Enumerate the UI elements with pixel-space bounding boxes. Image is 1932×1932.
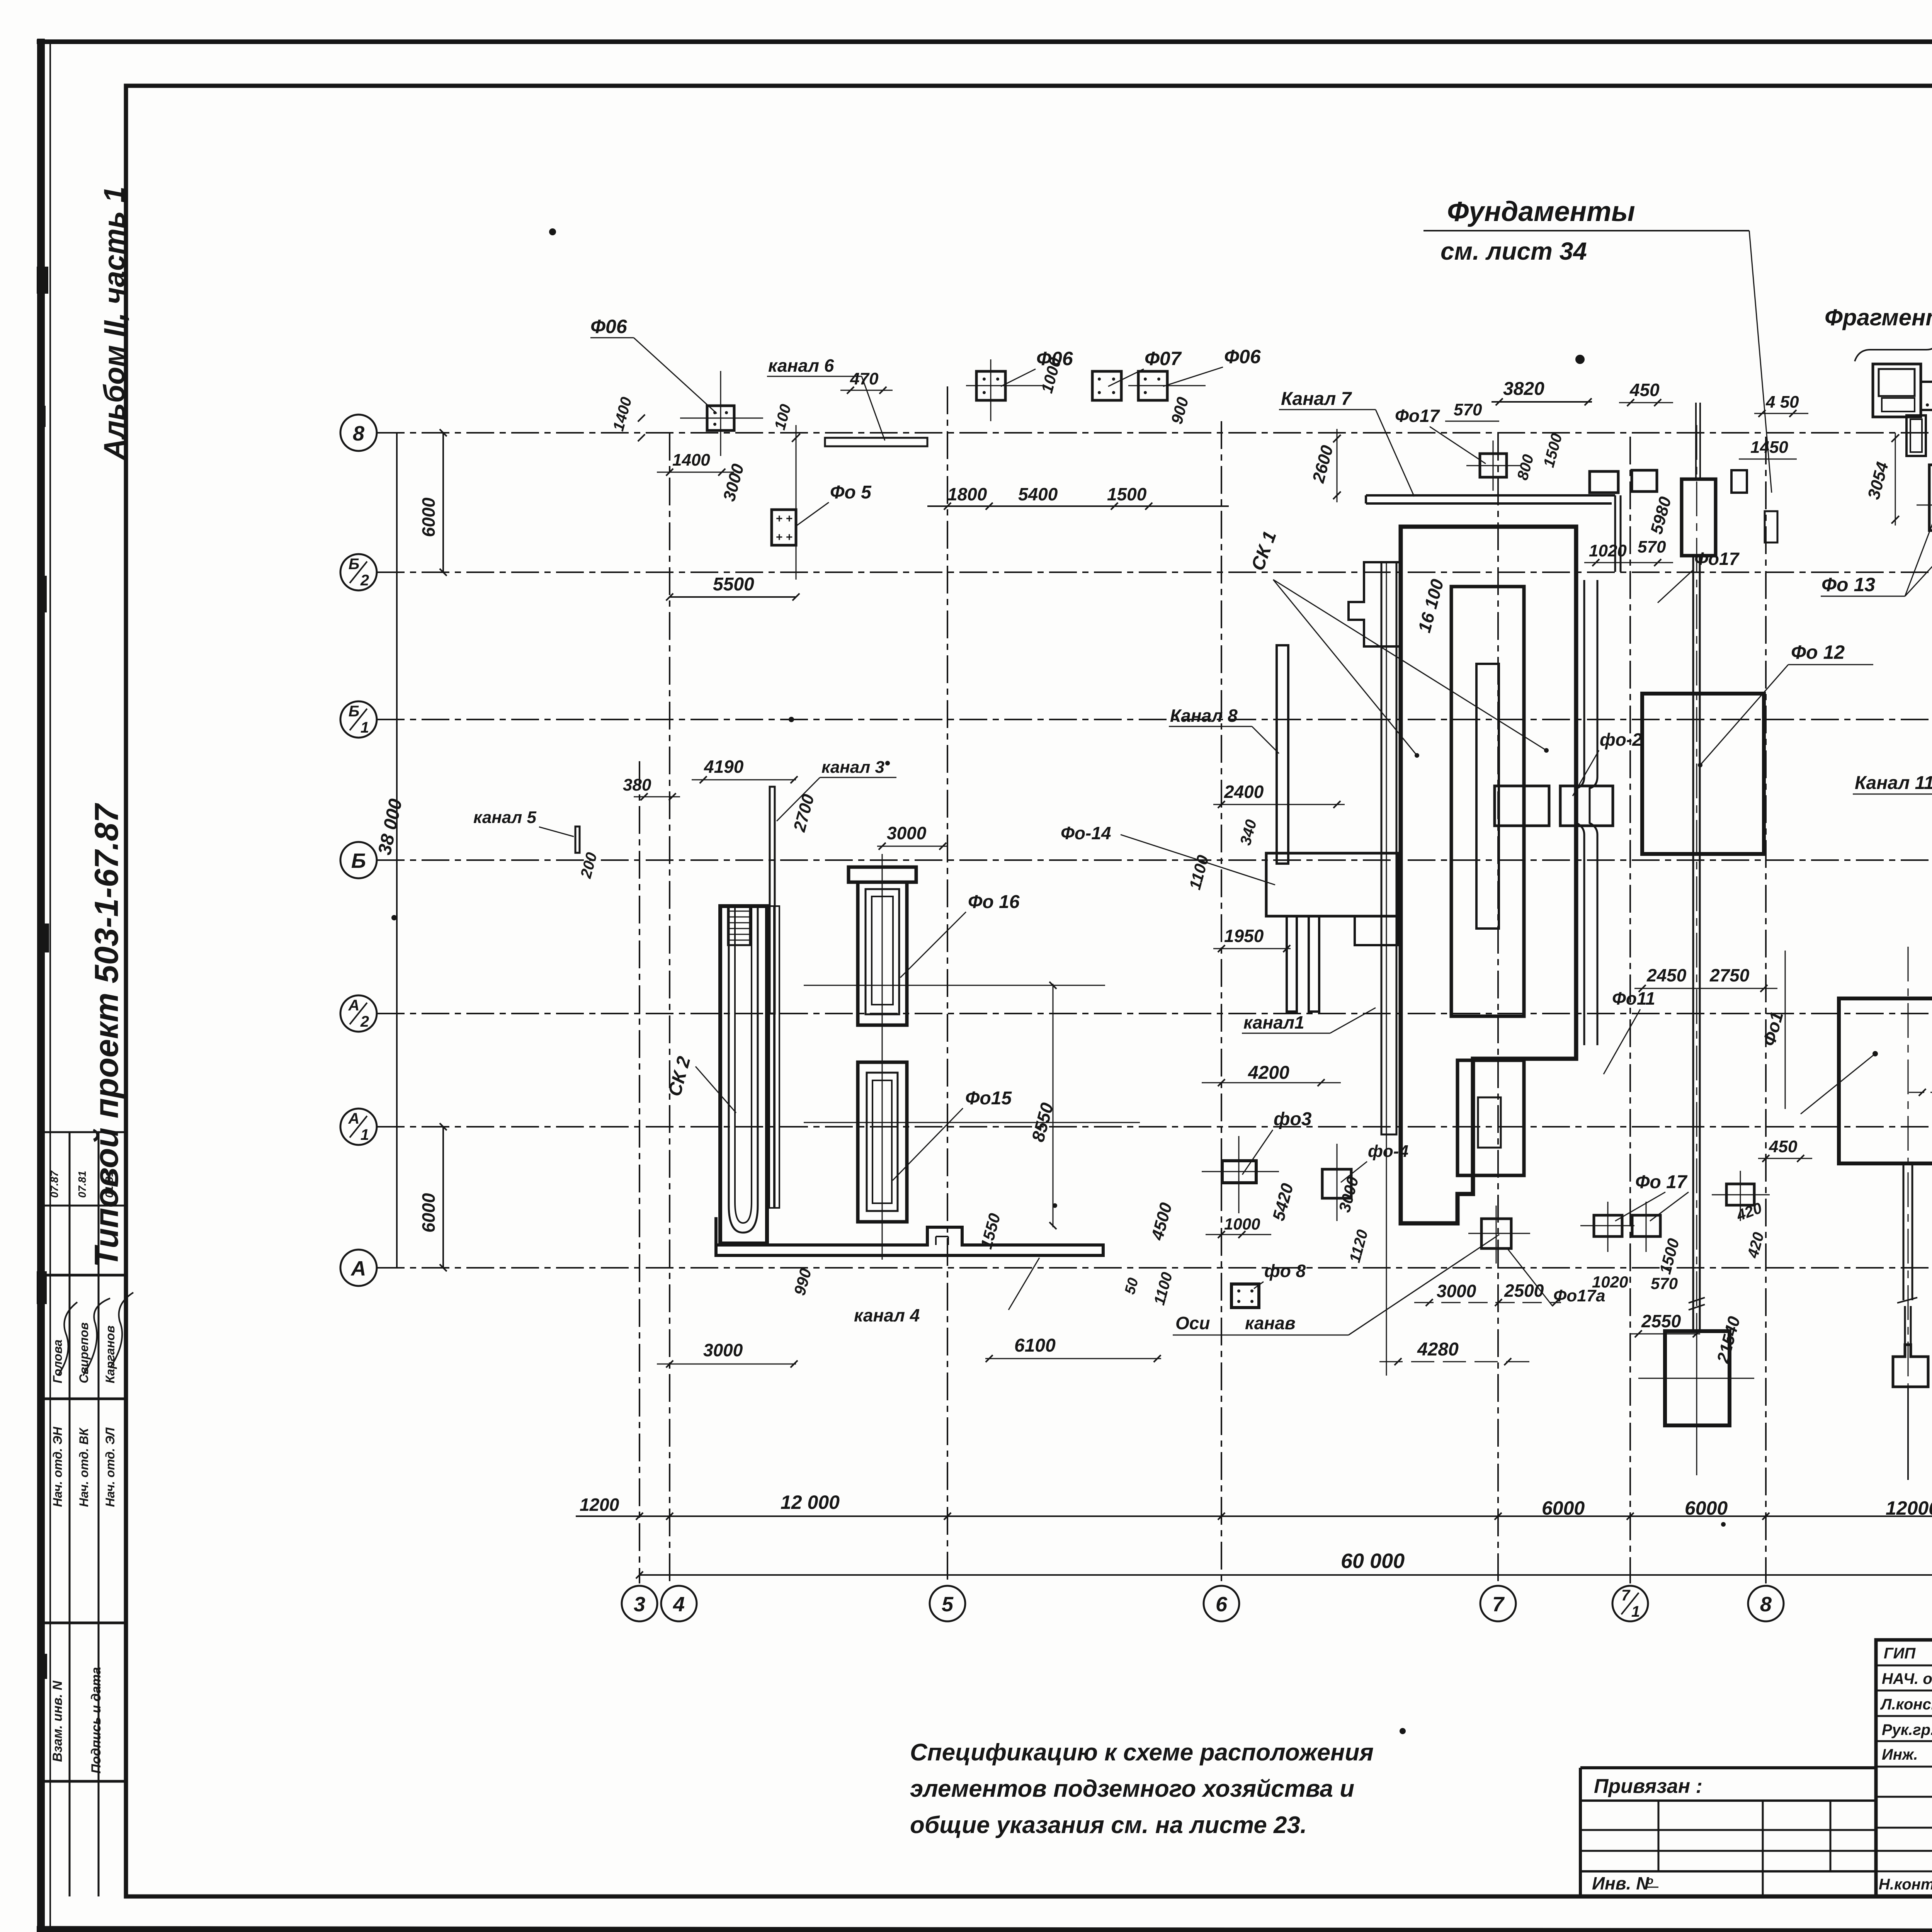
svg-text:1800: 1800 [947, 484, 987, 504]
axis column 3 circle [622, 1586, 657, 1621]
svg-text:канал 3: канал 3 [821, 758, 884, 777]
svg-text:Спецификацию к схеме расп: Спецификацию к схеме расположения [910, 1739, 1374, 1766]
svg-text:12 000: 12 000 [781, 1492, 840, 1513]
svg-text:фо-4: фо-4 [1368, 1142, 1408, 1161]
svg-text:ГИП: ГИП [1884, 1645, 1916, 1662]
foundation Ф06 first square [707, 406, 734, 430]
axis row Б/2 dash-dot line [377, 571, 1932, 573]
svg-text:1020: 1020 [1592, 1273, 1628, 1291]
svg-text:Привязан :: Привязан : [1594, 1775, 1702, 1798]
svg-text:Фо 13: Фо 13 [1821, 574, 1875, 595]
svg-text:о: о [1647, 1874, 1653, 1886]
Фо1 stem double line [1903, 1163, 1905, 1300]
svg-text:Канал 7: Канал 7 [1281, 389, 1352, 409]
svg-text:07.87: 07.87 [48, 1170, 60, 1198]
axis row А/2 circle [340, 995, 377, 1032]
svg-text:Б: Б [351, 849, 366, 872]
dimension tick [666, 1513, 673, 1520]
svg-text:Рук.гр.: Рук.гр. [1882, 1721, 1932, 1738]
axis column 7 circle [1480, 1586, 1516, 1621]
СК1 inner slot island lower [1478, 1097, 1501, 1148]
Фо15 centerline horizontal [804, 1122, 1140, 1123]
scan speck [1721, 1522, 1726, 1527]
Г shaped piece [1765, 511, 1777, 543]
svg-text:7: 7 [1621, 1587, 1631, 1604]
svg-text:1: 1 [1631, 1603, 1640, 1620]
svg-text:6000: 6000 [418, 497, 439, 537]
dimension tick [636, 1513, 643, 1520]
building СК1 slab outline [1401, 527, 1576, 1223]
svg-text:Фо-14: Фо-14 [1061, 823, 1111, 843]
axis row 8 circle [340, 415, 377, 451]
svg-text:01.81: 01.81 [103, 1171, 115, 1198]
svg-text:1450: 1450 [1750, 438, 1788, 457]
svg-text:8: 8 [1760, 1593, 1772, 1616]
axis row 8 dash-dot line [377, 432, 1932, 434]
svg-text:Голова: Голова [51, 1340, 65, 1383]
foundation Фо17а rect [1481, 1219, 1511, 1248]
axis column 8 dash-dot line [1765, 437, 1767, 1583]
Фо1 leader [1801, 1054, 1875, 1114]
Фо1 centerline [1908, 947, 1909, 1453]
svg-text:А: А [348, 997, 360, 1014]
foundation Ф05 [772, 510, 796, 545]
svg-text:380: 380 [623, 776, 651, 794]
svg-text:Оси: Оси [1175, 1313, 1210, 1333]
sheet outer border left rough band [37, 39, 45, 1932]
svg-text:1: 1 [361, 1126, 369, 1143]
svg-text:2: 2 [360, 572, 369, 589]
svg-text:Фо 16: Фо 16 [968, 892, 1020, 912]
svg-text:Нач. отд. ЭЛ: Нач. отд. ЭЛ [103, 1427, 117, 1507]
svg-text:Карганов: Карганов [103, 1325, 117, 1383]
svg-text:Фо 17: Фо 17 [1635, 1172, 1688, 1192]
foundation Фо15 slot [872, 1080, 892, 1203]
svg-text:Нач. отд. ЭН: Нач. отд. ЭН [51, 1427, 65, 1507]
foundation Фо1 big rectangle [1839, 998, 1932, 1163]
svg-text:4280: 4280 [1417, 1339, 1459, 1360]
foot centerlines [1696, 1314, 1697, 1445]
axis row А/1 circle [340, 1109, 377, 1145]
канал 4 double line channel [716, 1217, 1103, 1255]
left vertical dimension line [442, 433, 444, 572]
svg-text:5500: 5500 [713, 574, 754, 595]
axis row А/1 dash-dot line [377, 1126, 1932, 1128]
scan speck [789, 717, 794, 722]
foundation Фо12 big rectangle [1642, 694, 1764, 854]
СК1 leader lines [1273, 580, 1417, 755]
pair tall rect left 2700 [1929, 465, 1932, 531]
foundation Фо17 pair right [1632, 1215, 1660, 1236]
svg-text:см. лист 34: см. лист 34 [1440, 237, 1587, 265]
scan speck [885, 761, 890, 765]
Фо1 stem break [1897, 1298, 1917, 1303]
fragment big square inner [1879, 369, 1915, 396]
foundation Фо-2 right rect [1560, 786, 1613, 826]
dimension tick [1762, 1513, 1769, 1520]
СК1 inner slot island upper [1476, 664, 1499, 929]
foundation Фо16 flange [849, 867, 916, 882]
axis column 5 dash-dot line [947, 386, 948, 1583]
svg-text:6: 6 [1216, 1593, 1228, 1616]
svg-text:470: 470 [850, 369, 879, 388]
svg-text:570: 570 [1638, 537, 1666, 556]
axis row Б/2 circle [340, 554, 377, 590]
fragment big square outer [1873, 364, 1921, 417]
svg-text:2550: 2550 [1641, 1311, 1681, 1331]
svg-text:+ +: + + [776, 531, 793, 544]
svg-text:Инж.: Инж. [1882, 1746, 1918, 1763]
leader Фундаменты to фо17 [1749, 231, 1772, 493]
привязан sub grid [1580, 1799, 1876, 1802]
Фо-14 right block [1355, 916, 1398, 945]
svg-text:4190: 4190 [704, 757, 744, 777]
foundation Фо-2 left rect [1495, 786, 1549, 826]
building СК2 inner U slot [729, 906, 758, 1233]
central channel upper stem [1695, 403, 1697, 479]
left band noise blob [38, 1654, 47, 1679]
svg-text:Подпись и дата: Подпись и дата [89, 1667, 104, 1774]
канал 3 strip [770, 787, 775, 1014]
dimension tick [1495, 1513, 1502, 1520]
svg-text:Ф06: Ф06 [1224, 346, 1261, 367]
axis column 4 dash-dot line [669, 433, 670, 1583]
svg-text:канал 4: канал 4 [854, 1305, 920, 1325]
канал 7 L-channel double line [1366, 495, 1615, 503]
svg-text:1200: 1200 [580, 1495, 619, 1515]
title block outer frame [1876, 1640, 1932, 1896]
scan speck [391, 915, 397, 920]
svg-text:Фо17: Фо17 [1395, 406, 1440, 426]
оси канав leader lines [1349, 1258, 1464, 1335]
scan speck [1053, 1203, 1057, 1208]
left band noise blob [37, 1271, 47, 1304]
axis column 7 dash-dot line [1497, 433, 1499, 1583]
foundation Фо17 pair left [1594, 1215, 1622, 1236]
Фо16 Фо15 centerline vertical [882, 854, 883, 1260]
foundation Фо16 slot [872, 896, 893, 1005]
svg-text:канал 5: канал 5 [473, 808, 536, 827]
building СК2 outer rectangle [720, 906, 767, 1243]
axis row Б circle [340, 842, 377, 878]
svg-text:Л.констр.: Л.констр. [1880, 1696, 1932, 1713]
foundation Фо17 small right [1731, 470, 1747, 493]
svg-text:1950: 1950 [1224, 926, 1264, 946]
scan speck [1400, 1728, 1406, 1734]
svg-text:Канал 8: Канал 8 [1170, 706, 1238, 726]
svg-text:570: 570 [1651, 1274, 1678, 1293]
svg-text:2450: 2450 [1646, 965, 1687, 985]
svg-text:6000: 6000 [1685, 1497, 1728, 1519]
фрагмент bracket [1855, 342, 1932, 361]
svg-text:Ф06: Ф06 [590, 316, 628, 337]
svg-text:3000: 3000 [703, 1340, 743, 1360]
fragment lower neck outer [1906, 415, 1926, 456]
svg-text:1400: 1400 [672, 451, 710, 469]
svg-text:канал1: канал1 [1243, 1012, 1304, 1032]
axis column 7/1 dash-dot line [1629, 437, 1631, 1583]
svg-text:элементов подземного хозяйс: элементов подземного хозяйства и [910, 1776, 1354, 1802]
svg-text:2750: 2750 [1709, 965, 1750, 985]
канал 2 jog line [1577, 580, 1584, 1045]
svg-text:60 000: 60 000 [1341, 1549, 1405, 1573]
канал 4 bump notch [936, 1236, 948, 1245]
svg-text:Б: Б [349, 556, 359, 573]
foundation Фо3 rect [1222, 1161, 1256, 1183]
СК1 inner slot ring lower [1458, 1060, 1524, 1175]
Фо-14 legs [1287, 916, 1297, 1012]
sheet outer border bottom wavy lines [37, 1929, 1932, 1932]
axis column 4 circle [661, 1586, 697, 1621]
dimension tick [1218, 1513, 1225, 1520]
Фо1 tail line [1907, 1387, 1909, 1480]
left grid boundary vertical line [396, 433, 398, 1268]
svg-text:Фо 12: Фо 12 [1791, 641, 1845, 663]
sheet outer border top line [37, 39, 1932, 44]
side stamp signature squiggles [58, 1302, 77, 1376]
foundation Фо17 square top [1480, 454, 1507, 477]
axis row Б/1 circle [340, 701, 377, 738]
канал 6 strip [825, 438, 927, 446]
central channel double line [1692, 556, 1694, 1331]
svg-text:Фо11: Фо11 [1612, 988, 1655, 1009]
svg-text:Ф07: Ф07 [1145, 348, 1182, 369]
svg-text:Нач. отд. ВК: Нач. отд. ВК [77, 1427, 91, 1507]
канал 5 bar [575, 827, 580, 853]
central channel foot [1665, 1331, 1730, 1425]
axis column 6 dash-dot line [1221, 421, 1222, 1583]
scan speck [1575, 355, 1585, 364]
fragment right attach [1921, 382, 1932, 410]
axis column 3 dash-dot line [639, 761, 640, 1583]
svg-text:Взам. инв. N: Взам. инв. N [50, 1680, 65, 1762]
svg-text:8: 8 [353, 422, 364, 445]
fragment inner lower bar [1882, 398, 1915, 412]
svg-text:2500: 2500 [1504, 1281, 1544, 1301]
foundation Фо-4 rect [1322, 1169, 1351, 1198]
svg-text:450: 450 [1629, 380, 1660, 400]
building СК2 hatched head [728, 906, 750, 945]
dims 1800 5400 1500 line [927, 505, 1229, 507]
svg-text:4200: 4200 [1248, 1063, 1289, 1083]
svg-text:Альбом II, часть 1: Альбом II, часть 1 [98, 187, 131, 461]
svg-text:4 50: 4 50 [1765, 393, 1799, 412]
foundation Фо15 inner [867, 1073, 898, 1211]
svg-text:Фо17: Фо17 [1694, 549, 1740, 569]
СК1 left step upper [1349, 562, 1401, 646]
Фо-14 slab [1266, 853, 1398, 916]
svg-text:3000: 3000 [1437, 1281, 1476, 1301]
svg-text:+ +: + + [776, 512, 793, 525]
канал 8 strip [1277, 645, 1288, 864]
central channel break marks [1689, 1298, 1705, 1310]
svg-text:1000: 1000 [1224, 1215, 1260, 1233]
foundation Ф07 square [1092, 371, 1121, 400]
svg-text:6100: 6100 [1014, 1335, 1056, 1356]
Ф05 column line [796, 425, 797, 580]
svg-text:фо 8: фо 8 [1264, 1261, 1306, 1281]
foundation Фо15 outer [858, 1062, 907, 1222]
dimension tick [1627, 1513, 1634, 1520]
svg-text:А: А [350, 1257, 366, 1280]
svg-text:фо3: фо3 [1274, 1109, 1312, 1129]
foundation Фо16 inner outline [866, 889, 899, 1014]
axis column 7/1 circle [1612, 1586, 1648, 1621]
axis row А/2 dash-dot line [377, 1013, 1932, 1014]
svg-text:3000: 3000 [887, 823, 927, 843]
svg-text:канал 6: канал 6 [768, 355, 834, 376]
svg-text:5400: 5400 [1018, 484, 1058, 504]
svg-text:фо-2: фо-2 [1600, 730, 1642, 750]
svg-text:1020: 1020 [1589, 541, 1627, 560]
svg-text:Б: Б [349, 703, 359, 720]
svg-text:3: 3 [634, 1593, 645, 1616]
svg-text:4: 4 [673, 1593, 685, 1616]
foundation Ф06 third square [1138, 371, 1167, 400]
svg-text:3820: 3820 [1503, 379, 1544, 399]
central channel tall rect [1682, 479, 1716, 556]
Фо1 foot [1893, 1345, 1928, 1387]
axis row А dash-dot line [377, 1267, 1932, 1269]
axis row Б/1 dash-dot line [377, 719, 1932, 720]
svg-text:07.81: 07.81 [76, 1171, 88, 1198]
svg-text:Н.контр.: Н.контр. [1879, 1876, 1932, 1893]
axis column 8 circle [1748, 1586, 1784, 1621]
scan speck [549, 228, 556, 235]
foundation Фо8 rect [1231, 1284, 1259, 1308]
axis row А circle [340, 1250, 377, 1286]
svg-text:5: 5 [942, 1593, 954, 1616]
svg-text:Фундаменты: Фундаменты [1447, 196, 1635, 227]
fragment lower neck inner [1910, 419, 1922, 452]
СК2 right thin strips [769, 906, 774, 1208]
svg-text:общие указания см. на лист: общие указания см. на листе 23. [910, 1812, 1307, 1838]
bottom dimension chain line [576, 1515, 1932, 1517]
Ф06 square centerlines [680, 418, 763, 419]
svg-text:А: А [348, 1110, 360, 1127]
канал 1 thin strip [1381, 562, 1396, 1134]
axis row Б dash-dot line [377, 859, 1932, 861]
axis column 5 circle [930, 1586, 965, 1621]
svg-text:НАЧ. отд.: НАЧ. отд. [1882, 1670, 1932, 1687]
side stamp table grid [40, 1131, 126, 1133]
foundation pair near 450 right [1632, 470, 1657, 492]
foundation Фо17 upper rect [1726, 1184, 1754, 1205]
central channel centerline [1696, 425, 1697, 1480]
svg-text:Фо15: Фо15 [965, 1088, 1012, 1109]
svg-text:12000: 12000 [1886, 1497, 1932, 1519]
svg-text:570: 570 [1454, 400, 1482, 419]
svg-text:1500: 1500 [1107, 484, 1147, 504]
svg-text:2400: 2400 [1224, 782, 1264, 802]
svg-text:450: 450 [1769, 1137, 1798, 1156]
привязан block [1580, 1766, 1876, 1769]
Фо16 centerline horizontal [804, 985, 1105, 986]
staff table horizontals [1876, 1665, 1932, 1667]
left band noise blob [38, 923, 49, 952]
dimension tick [944, 1513, 951, 1520]
overall dimension 60 000 line [639, 1574, 1932, 1576]
svg-text:Фо 5: Фо 5 [830, 482, 872, 503]
svg-text:6000: 6000 [418, 1193, 439, 1233]
svg-text:7: 7 [1492, 1593, 1505, 1616]
axis column 6 circle [1204, 1586, 1239, 1621]
foundation Ф06 second square [976, 371, 1005, 400]
svg-text:канав: канав [1245, 1313, 1296, 1333]
foundation Фо16 body [858, 882, 907, 1025]
left band noise blob [37, 576, 47, 612]
svg-text:Инв. N: Инв. N [1592, 1873, 1649, 1893]
left band noise blob [37, 406, 46, 427]
svg-text:Канал 11: Канал 11 [1855, 773, 1932, 793]
СК1 inner slot ring upper [1451, 587, 1524, 1016]
dim 8550 vertical line [1053, 984, 1054, 1227]
left band noise blob [37, 267, 48, 294]
foundation pair near 450 left [1590, 471, 1618, 493]
svg-text:1: 1 [361, 719, 369, 736]
svg-text:Фрагмент 1, лист 33: Фрагмент 1, лист 33 [1825, 304, 1932, 330]
svg-text:2: 2 [360, 1013, 369, 1030]
svg-text:6000: 6000 [1542, 1497, 1585, 1519]
dim line 3000 2500 [1414, 1302, 1561, 1303]
